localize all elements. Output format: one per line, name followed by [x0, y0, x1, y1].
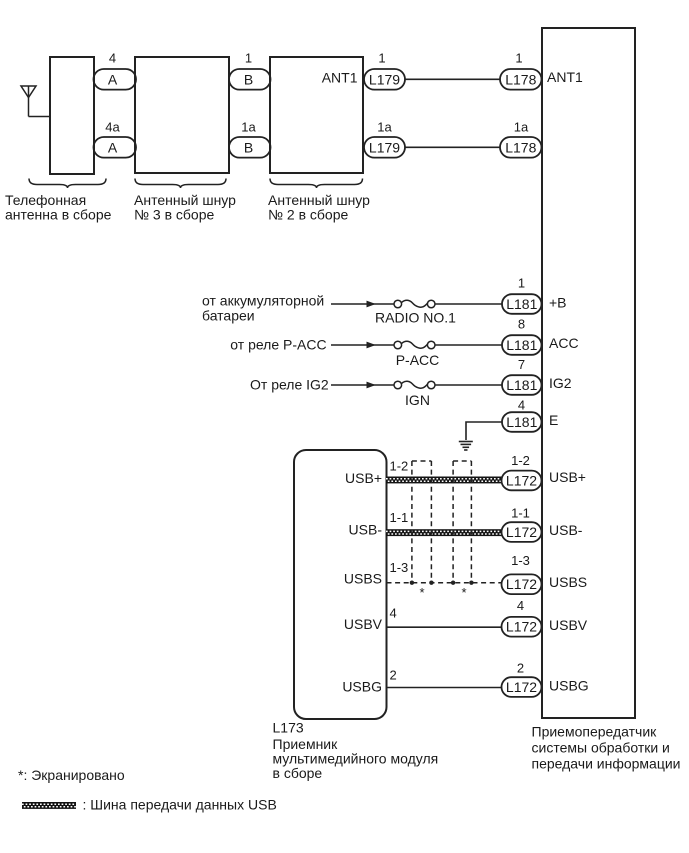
- svg-text:передачи информации: передачи информации: [532, 756, 681, 772]
- svg-text:№ 2 в сборе: № 2 в сборе: [268, 207, 349, 223]
- wire USBG: [387, 687, 502, 689]
- box: antenna cord no.2 assembly: [270, 57, 363, 173]
- svg-text:*: *: [461, 585, 466, 600]
- legend: USB data bus sample: [22, 802, 76, 809]
- svg-text:USB-: USB-: [349, 522, 383, 538]
- box: multimedia module receiver L173: [294, 450, 387, 719]
- wire antenna to telephone antenna box: [29, 116, 51, 118]
- svg-text:ANT1: ANT1: [547, 69, 583, 85]
- svg-text:E: E: [549, 412, 558, 428]
- connector A pin 4: [94, 69, 137, 90]
- svg-text:L172: L172: [506, 576, 537, 592]
- svg-text:L179: L179: [369, 71, 400, 87]
- svg-text:A: A: [108, 71, 118, 87]
- svg-text:A: A: [108, 139, 118, 155]
- svg-text:От реле IG2: От реле IG2: [250, 377, 329, 393]
- svg-text:4a: 4a: [105, 120, 120, 135]
- svg-text:L172: L172: [506, 524, 537, 540]
- wire fuse to L181-1: [435, 303, 502, 305]
- svg-text:L181: L181: [506, 337, 537, 353]
- fuse RADIO NO.1: [394, 300, 435, 308]
- connector L179 pin 1a: [364, 137, 405, 158]
- fuse IGN: [394, 381, 435, 389]
- wire fuse to L181-7: [435, 384, 502, 386]
- connector L181 pin 1: [502, 294, 542, 314]
- svg-text:2: 2: [390, 668, 397, 683]
- svg-text:IG2: IG2: [549, 375, 572, 391]
- brace under antenna cord no.2 box: [270, 179, 363, 189]
- svg-text:USB-: USB-: [549, 522, 583, 538]
- USB+ data bus wire: [386, 477, 502, 484]
- svg-text:1a: 1a: [514, 120, 529, 135]
- connector L179 pin 1: [364, 69, 405, 90]
- connector L178 pin 1: [500, 69, 542, 90]
- svg-text:+B: +B: [549, 295, 567, 311]
- svg-text:USBV: USBV: [344, 616, 383, 632]
- svg-text:4: 4: [517, 598, 524, 613]
- svg-text:B: B: [244, 71, 253, 87]
- svg-text:USBS: USBS: [549, 574, 587, 590]
- svg-text:1-2: 1-2: [511, 453, 530, 468]
- connector A pin 4a: [94, 137, 137, 158]
- svg-text:антенна в сборе: антенна в сборе: [5, 207, 112, 223]
- box: antenna cord no.3 assembly: [135, 57, 229, 173]
- svg-text:USBG: USBG: [549, 678, 589, 694]
- svg-text:L178: L178: [505, 139, 536, 155]
- svg-text:Приемопередатчик: Приемопередатчик: [532, 724, 658, 740]
- svg-text:4: 4: [518, 397, 525, 412]
- connector L172 pin 4: [502, 617, 542, 637]
- wire battery to fuse: [331, 303, 394, 305]
- svg-text:USBS: USBS: [344, 571, 382, 587]
- svg-text:L172: L172: [506, 472, 537, 488]
- svg-text:P-ACC: P-ACC: [396, 352, 440, 368]
- arrow on +B wire: [367, 301, 376, 308]
- svg-text:от аккумуляторной: от аккумуляторной: [202, 293, 324, 309]
- svg-text:1-1: 1-1: [390, 510, 409, 525]
- svg-text:*: *: [419, 585, 424, 600]
- svg-text:L181: L181: [506, 296, 537, 312]
- svg-text:L172: L172: [506, 619, 537, 635]
- box: transceiver (right tall box): [542, 28, 635, 718]
- svg-text:L181: L181: [506, 377, 537, 393]
- connector L181 pin 7: [502, 375, 542, 395]
- connector B pin 1: [229, 69, 271, 90]
- svg-text:2: 2: [517, 661, 524, 676]
- junction dots on USBS wire: [410, 581, 474, 585]
- USB- data bus wire: [386, 529, 502, 536]
- connector B pin 1a: [229, 137, 271, 158]
- svg-text:1a: 1a: [241, 120, 256, 135]
- svg-text:*: Экранировано: *: Экранировано: [18, 767, 125, 783]
- svg-text:ANT1: ANT1: [322, 69, 358, 85]
- svg-text:B: B: [244, 139, 253, 155]
- svg-text:USBG: USBG: [342, 679, 382, 695]
- connector L172 pin 1-2: [502, 471, 542, 491]
- connector L181 pin 4: [502, 412, 542, 432]
- connector L181 pin 8: [502, 335, 542, 355]
- svg-text:USB+: USB+: [549, 469, 586, 485]
- svg-text:1: 1: [245, 51, 252, 66]
- fuse P-ACC: [394, 341, 435, 349]
- wire P-ACC relay to fuse: [331, 344, 394, 346]
- ground: [459, 442, 473, 451]
- svg-text:USB+: USB+: [345, 470, 382, 486]
- arrow on ACC wire: [367, 342, 376, 349]
- svg-text:L173: L173: [273, 720, 304, 736]
- svg-text:IGN: IGN: [405, 392, 430, 408]
- shield box around USB+ and USB- wires (left): [412, 461, 432, 583]
- svg-text:L178: L178: [505, 71, 536, 87]
- svg-text:L179: L179: [369, 139, 400, 155]
- svg-text:в сборе: в сборе: [273, 765, 323, 781]
- wire L179-1a to L178-1a: [405, 146, 500, 148]
- svg-text:1-3: 1-3: [390, 560, 409, 575]
- svg-text:L172: L172: [506, 679, 537, 695]
- brace under telephone antenna box: [29, 179, 106, 189]
- shield box around USB+ and USB- wires (right): [453, 461, 471, 583]
- connector L172 pin 1-1: [502, 522, 542, 542]
- svg-text:L181: L181: [506, 414, 537, 430]
- brace under antenna cord no.3 box: [135, 179, 226, 189]
- svg-text:системы обработки и: системы обработки и: [532, 740, 670, 756]
- svg-text:1: 1: [518, 276, 525, 291]
- connector L172 pin 1-3: [502, 574, 542, 594]
- svg-text:8: 8: [518, 317, 525, 332]
- svg-text:RADIO NO.1: RADIO NO.1: [375, 310, 456, 326]
- box: telephone antenna assembly: [50, 57, 94, 174]
- svg-text:: Шина передачи данных USB: : Шина передачи данных USB: [83, 797, 277, 813]
- USBS shield wire (dashed): [387, 582, 502, 584]
- arrow on IG2 wire: [367, 382, 376, 389]
- svg-text:USBV: USBV: [549, 617, 588, 633]
- wire L181-4 to ground: [466, 422, 502, 440]
- svg-text:1-1: 1-1: [511, 506, 530, 521]
- svg-text:1: 1: [515, 51, 522, 66]
- svg-text:4: 4: [390, 606, 397, 621]
- svg-text:батареи: батареи: [202, 308, 255, 324]
- svg-text:1-3: 1-3: [511, 553, 530, 568]
- svg-text:ACC: ACC: [549, 335, 579, 351]
- wire fuse to L181-8: [435, 344, 502, 346]
- svg-text:4: 4: [109, 51, 116, 66]
- connector L172 pin 2: [502, 677, 542, 697]
- wire USBV: [387, 626, 502, 628]
- svg-text:№ 3 в сборе: № 3 в сборе: [134, 207, 215, 223]
- svg-text:1a: 1a: [377, 120, 392, 135]
- wire IG2 relay to fuse: [331, 384, 394, 386]
- svg-text:1-2: 1-2: [390, 459, 409, 474]
- svg-text:1: 1: [378, 51, 385, 66]
- wire L179-1 to L178-1: [405, 78, 500, 80]
- connector L178 pin 1a: [500, 137, 542, 158]
- antenna symbol: [21, 86, 36, 117]
- svg-text:7: 7: [518, 357, 525, 372]
- svg-text:от реле P-ACC: от реле P-ACC: [230, 337, 326, 353]
